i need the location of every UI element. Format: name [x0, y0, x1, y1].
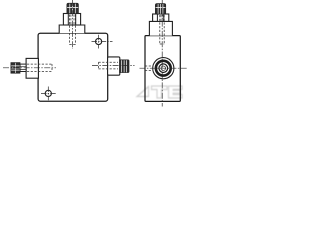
side threaded stud	[155, 4, 165, 14]
top threaded stud	[67, 3, 79, 13]
bolt hole bottom-left	[45, 90, 51, 96]
side hidden port dashes (left face)	[145, 66, 151, 70]
top hex nut	[63, 14, 80, 26]
right port fitting body	[108, 57, 120, 75]
side top boss	[149, 21, 172, 35]
hidden thread hole (dashed) below top port	[70, 15, 76, 45]
side hidden thread hole (dashed)	[160, 15, 164, 44]
right port centerline	[92, 65, 135, 67]
right port hidden hole (dashed)	[99, 62, 119, 69]
top port boss	[59, 25, 85, 33]
side view block	[145, 36, 180, 102]
port horizontal centerline	[140, 67, 189, 69]
left fitting end nut	[11, 63, 20, 74]
bolt hole top-right	[96, 38, 102, 44]
top port centerline	[71, 0, 73, 49]
hex facet lines	[68, 14, 75, 26]
left port fitting body	[26, 58, 38, 78]
left port centerline	[3, 67, 56, 69]
watermark TE logo	[137, 86, 182, 98]
front port circles	[153, 58, 174, 79]
left port hidden hole (dashed)	[27, 64, 52, 71]
side vertical centerline	[161, 0, 163, 107]
left fitting stud	[20, 64, 26, 71]
right fitting threaded stud	[120, 60, 129, 73]
side hex nut	[153, 14, 169, 21]
valve body block	[38, 33, 108, 101]
